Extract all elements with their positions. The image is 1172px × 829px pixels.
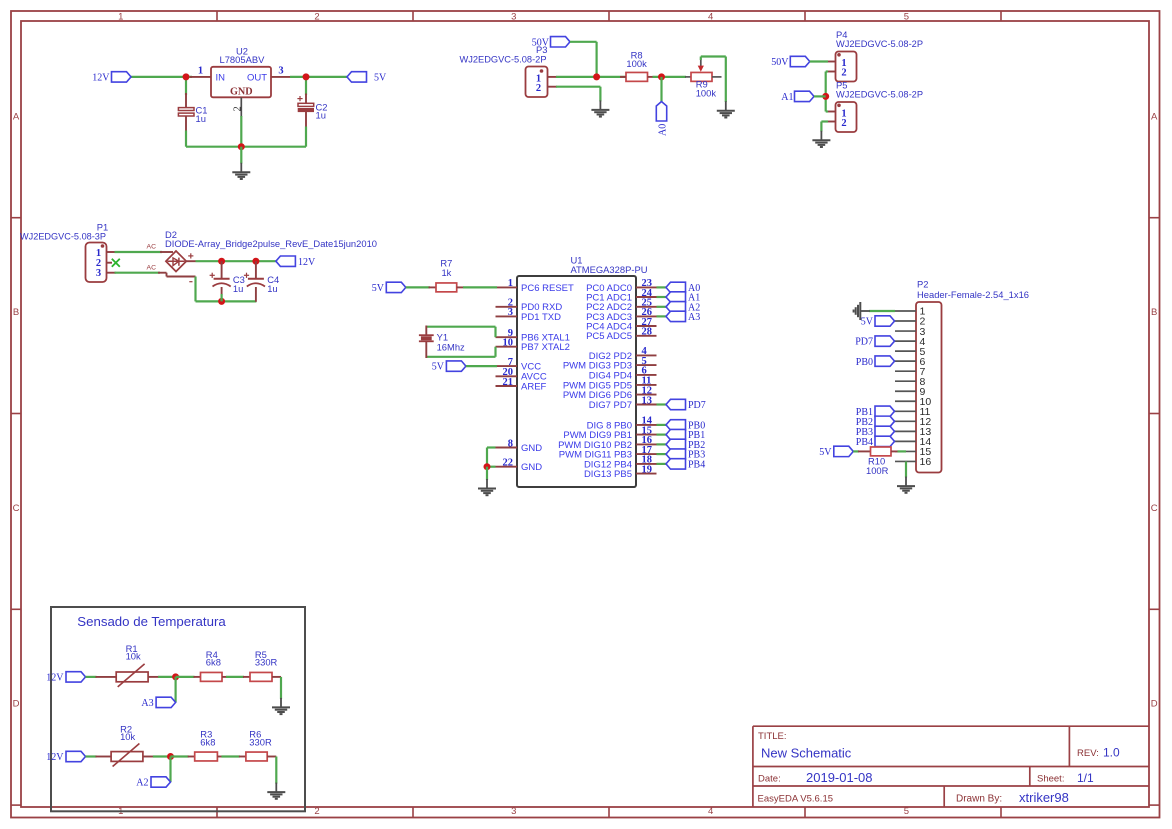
svg-text:1: 1: [508, 278, 513, 289]
svg-text:3: 3: [278, 66, 283, 77]
svg-text:2: 2: [841, 118, 846, 129]
svg-text:3: 3: [511, 11, 516, 22]
svg-text:A2: A2: [136, 778, 148, 789]
svg-text:PB7 XTAL2: PB7 XTAL2: [521, 342, 570, 353]
svg-text:C: C: [1151, 503, 1158, 514]
svg-text:12V: 12V: [92, 73, 110, 84]
svg-text:Sensado de Temperatura: Sensado de Temperatura: [77, 614, 226, 629]
svg-text:ATMEGA328P-PU: ATMEGA328P-PU: [571, 264, 648, 275]
svg-text:1u: 1u: [316, 109, 326, 120]
svg-text:PD7: PD7: [855, 337, 873, 348]
svg-text:PB4: PB4: [688, 460, 705, 471]
svg-text:B: B: [1151, 307, 1157, 318]
svg-text:100R: 100R: [866, 465, 889, 476]
svg-text:1k: 1k: [441, 267, 451, 278]
svg-text:1.0: 1.0: [1103, 746, 1120, 760]
svg-text:8: 8: [508, 438, 513, 449]
svg-text:D: D: [13, 699, 20, 710]
svg-text:5V: 5V: [819, 447, 832, 458]
svg-text:WJ2EDGVC-5.08-2P: WJ2EDGVC-5.08-2P: [836, 38, 923, 49]
svg-text:Drawn By:: Drawn By:: [956, 794, 1002, 805]
svg-text:5V: 5V: [432, 362, 445, 373]
svg-text:1u: 1u: [267, 283, 277, 294]
svg-text:100k: 100k: [696, 87, 717, 98]
svg-text:5: 5: [904, 806, 909, 817]
svg-text:IN: IN: [216, 72, 226, 83]
svg-text:DIG13 PB5: DIG13 PB5: [584, 469, 632, 480]
svg-text:2: 2: [314, 11, 319, 22]
svg-text:4: 4: [708, 806, 713, 817]
svg-text:A: A: [1151, 111, 1158, 122]
svg-text:EasyEDA V5.6.15: EasyEDA V5.6.15: [758, 794, 834, 805]
svg-text:5: 5: [904, 11, 909, 22]
svg-text:50V: 50V: [532, 37, 550, 48]
svg-text:PC5 ADC5: PC5 ADC5: [586, 331, 632, 342]
svg-text:A3: A3: [141, 698, 153, 709]
svg-text:AREF: AREF: [521, 381, 547, 392]
svg-text:xtriker98: xtriker98: [1019, 790, 1069, 805]
svg-text:1: 1: [198, 66, 203, 77]
svg-text:PB0: PB0: [856, 357, 873, 368]
svg-text:AC: AC: [147, 243, 157, 250]
svg-text:13: 13: [642, 395, 653, 406]
svg-text:WJ2EDGVC-5.08-3P: WJ2EDGVC-5.08-3P: [20, 231, 106, 242]
svg-text:Header-Female-2.54_1x16: Header-Female-2.54_1x16: [917, 289, 1029, 300]
svg-text:16Mhz: 16Mhz: [437, 342, 465, 353]
svg-text:19: 19: [642, 464, 653, 475]
svg-text:6k8: 6k8: [206, 657, 221, 668]
svg-text:21: 21: [503, 377, 514, 388]
svg-text:Date:: Date:: [758, 774, 781, 785]
svg-text:A0: A0: [657, 124, 668, 136]
svg-text:C: C: [13, 503, 20, 514]
svg-text:DIG7 PD7: DIG7 PD7: [589, 400, 632, 411]
svg-text:TITLE:: TITLE:: [758, 731, 787, 742]
svg-text:GND: GND: [521, 462, 542, 473]
svg-text:2: 2: [233, 106, 244, 111]
svg-text:2: 2: [841, 68, 846, 79]
svg-text:5V: 5V: [374, 73, 387, 84]
svg-text:A1: A1: [781, 92, 793, 103]
svg-text:AC: AC: [147, 264, 157, 271]
svg-text:10k: 10k: [120, 731, 135, 742]
svg-text:GND: GND: [521, 443, 542, 454]
svg-text:REV:: REV:: [1077, 748, 1099, 759]
svg-text:6k8: 6k8: [200, 736, 215, 747]
svg-text:L7805ABV: L7805ABV: [220, 54, 266, 65]
svg-text:330R: 330R: [249, 736, 272, 747]
svg-text:A: A: [13, 111, 20, 122]
svg-text:New Schematic: New Schematic: [761, 745, 852, 760]
svg-text:D: D: [1151, 699, 1158, 710]
svg-text:1u: 1u: [196, 113, 206, 124]
svg-text:PD1 TXD: PD1 TXD: [521, 312, 561, 323]
svg-text:2: 2: [314, 806, 319, 817]
svg-text:1u: 1u: [233, 283, 243, 294]
svg-text:OUT: OUT: [247, 72, 267, 83]
svg-text:330R: 330R: [255, 657, 278, 668]
svg-text:3: 3: [511, 806, 516, 817]
svg-text:28: 28: [642, 327, 653, 338]
svg-text:50V: 50V: [771, 57, 789, 68]
svg-text:3: 3: [96, 268, 101, 279]
svg-text:12V: 12V: [298, 257, 316, 268]
svg-text:1/1: 1/1: [1077, 771, 1094, 785]
svg-text:Sheet:: Sheet:: [1037, 774, 1064, 785]
svg-text:100k: 100k: [626, 58, 647, 69]
svg-text:10k: 10k: [126, 650, 141, 661]
svg-text:PD7: PD7: [688, 400, 706, 411]
svg-text:2: 2: [536, 83, 541, 94]
svg-text:3: 3: [508, 307, 513, 318]
svg-text:1: 1: [118, 11, 123, 22]
svg-text:2019-01-08: 2019-01-08: [806, 770, 873, 785]
svg-text:DIODE-Array_Bridge2pulse_RevE_: DIODE-Array_Bridge2pulse_RevE_Date15jun2…: [165, 238, 377, 249]
svg-text:4: 4: [708, 11, 713, 22]
svg-text:WJ2EDGVC-5.08-2P: WJ2EDGVC-5.08-2P: [460, 53, 547, 64]
svg-text:16: 16: [920, 456, 932, 468]
svg-text:PC6 RESET: PC6 RESET: [521, 283, 574, 294]
svg-text:10: 10: [503, 338, 514, 349]
svg-text:5V: 5V: [861, 317, 874, 328]
svg-text:GND: GND: [230, 87, 253, 98]
svg-text:22: 22: [503, 458, 514, 469]
svg-text:12V: 12V: [46, 673, 64, 684]
svg-text:WJ2EDGVC-5.08-2P: WJ2EDGVC-5.08-2P: [836, 89, 923, 100]
svg-text:A3: A3: [688, 312, 700, 323]
svg-text:12V: 12V: [46, 752, 64, 763]
svg-text:5V: 5V: [372, 283, 385, 294]
svg-text:B: B: [13, 307, 19, 318]
